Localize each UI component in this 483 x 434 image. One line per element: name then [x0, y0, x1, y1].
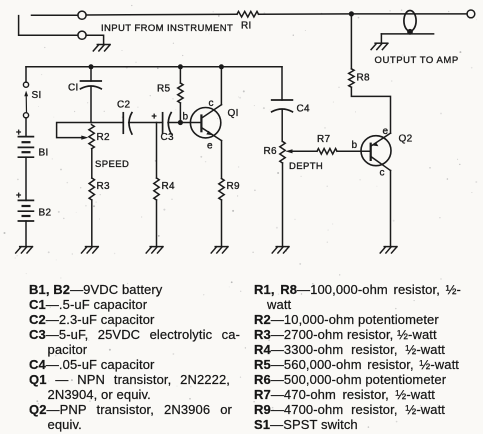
node Q1 collector rail	[219, 64, 224, 69]
svg-text:C4: C4	[297, 104, 311, 115]
wire R1 to output node	[259, 13, 352, 15]
svg-text:OUTPUT TO AMP: OUTPUT TO AMP	[375, 55, 459, 66]
output plug barrel	[404, 10, 416, 31]
wire rail to C4	[281, 67, 283, 100]
svg-text:QI: QI	[228, 108, 239, 119]
transistor Q1	[190, 105, 221, 141]
resistor R8	[349, 69, 354, 87]
resistor R5	[178, 83, 183, 103]
wire Q2 collector to ground	[390, 171, 392, 247]
battery B2	[18, 200, 33, 221]
wire B1 to B2	[25, 157, 27, 200]
wire R5 to base node	[179, 103, 181, 123]
svg-text:R7: R7	[317, 134, 331, 145]
svg-text:R2: R2	[97, 132, 111, 143]
svg-text:C2: C2	[117, 100, 131, 111]
svg-text:INPUT FROM INSTRUMENT: INPUT FROM INSTRUMENT	[101, 23, 233, 34]
wire Q1 emitter to R9	[221, 141, 223, 179]
wire base node to Q1	[180, 122, 201, 124]
battery B1	[18, 137, 33, 158]
svg-text:b: b	[352, 140, 358, 151]
wire rail to R5	[179, 67, 181, 83]
node output junction	[349, 11, 354, 16]
wire R4 to ground	[156, 200, 158, 247]
ground output	[371, 43, 388, 49]
wire input tip lead	[32, 14, 78, 16]
wire output node to jack	[351, 13, 467, 15]
svg-text:+: +	[16, 190, 21, 200]
resistor R3	[89, 178, 94, 200]
svg-text:R9: R9	[227, 181, 241, 192]
svg-text:R6: R6	[264, 146, 278, 157]
wire input tip to R1	[86, 13, 237, 16]
wire R6 to ground	[282, 163, 284, 247]
wire R2 wiper loop	[57, 123, 92, 138]
wire input sleeve bracket	[19, 16, 78, 36]
svg-text:R5: R5	[157, 84, 171, 95]
input jack sleeve terminal	[78, 31, 86, 39]
ground R6	[272, 247, 289, 253]
svg-text:e: e	[207, 141, 213, 152]
svg-text:c: c	[209, 98, 214, 109]
svg-text:C3: C3	[161, 132, 175, 143]
wire R2 top to C2	[92, 122, 124, 124]
ground battery	[16, 247, 33, 253]
svg-text:R3: R3	[97, 181, 111, 192]
wire rail to C1	[90, 67, 92, 81]
resistor R1	[237, 11, 259, 17]
resistor R9	[219, 179, 224, 201]
potentiometer R2	[81, 125, 94, 149]
ground R4	[146, 247, 163, 253]
wire C4 to R6	[281, 110, 283, 141]
node C1 rail	[89, 64, 94, 69]
svg-text:CI: CI	[68, 83, 79, 94]
output jack tip terminal	[467, 10, 475, 18]
node output sleeve	[407, 29, 413, 35]
wire Q1 collector to rail	[220, 67, 222, 105]
capacitor C3	[163, 113, 172, 134]
wire C2 to C3	[129, 122, 163, 124]
wire C3 to base node	[168, 122, 180, 124]
wire R3 to ground	[91, 200, 93, 247]
input jack tip terminal	[78, 11, 86, 19]
svg-text:B2: B2	[39, 208, 52, 219]
svg-text:SI: SI	[32, 90, 42, 101]
svg-text:Q2: Q2	[399, 134, 413, 145]
svg-text:e: e	[383, 126, 389, 137]
capacitor C4	[272, 100, 293, 112]
svg-text:R4: R4	[162, 181, 176, 192]
svg-text:+: +	[152, 111, 157, 121]
wire R6 wiper to R7	[292, 150, 318, 152]
wire output sleeve	[381, 33, 433, 35]
ground input jack	[93, 45, 110, 51]
wire sleeve to ground	[380, 34, 382, 43]
wire C2C3 to R4	[156, 123, 158, 179]
svg-text:c: c	[380, 168, 385, 179]
svg-text:BI: BI	[39, 148, 49, 159]
svg-text:b: b	[183, 112, 189, 123]
wire B2 to ground	[25, 221, 27, 247]
wire R9 to ground	[221, 200, 223, 247]
switch S1	[23, 82, 28, 118]
wire rail to S1	[25, 67, 27, 82]
wire supply rail	[26, 66, 282, 68]
capacitor C2	[123, 113, 132, 134]
capacitor C1	[81, 81, 102, 89]
potentiometer R6	[280, 141, 293, 163]
ground R3	[82, 247, 99, 253]
svg-text:+: +	[16, 127, 21, 137]
wire C1 to R2	[90, 87, 92, 123]
node R5 rail	[178, 64, 183, 69]
svg-text:R8: R8	[357, 73, 371, 84]
svg-text:RI: RI	[241, 21, 252, 32]
wire output node to R8	[350, 14, 352, 69]
node Q1 base	[178, 120, 183, 125]
wire S1 to B1	[25, 118, 27, 137]
svg-text:DEPTH: DEPTH	[289, 161, 323, 172]
ground R9	[211, 247, 228, 253]
resistor R7	[317, 149, 337, 155]
wire sleeve to ground	[86, 35, 104, 44]
wire R2 to R3	[91, 149, 93, 178]
wire R8 to Q2 emitter	[351, 87, 390, 133]
resistor R4	[154, 178, 159, 200]
ground Q2 collector	[380, 247, 397, 253]
transistor Q2	[361, 133, 391, 170]
wire R7 to Q2 base	[337, 150, 371, 152]
svg-text:SPEED: SPEED	[95, 159, 129, 170]
